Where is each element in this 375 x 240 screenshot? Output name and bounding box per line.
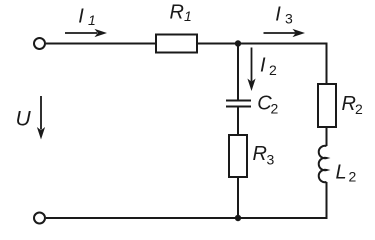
resistor R2	[318, 84, 336, 127]
resistor R3	[229, 135, 247, 177]
bottom wire	[46, 217, 328, 219]
wire L2 to bottom-right corner	[326, 182, 328, 219]
wire R3 to node B	[237, 177, 239, 218]
terminal bottom-left	[34, 213, 45, 224]
node B junction dot	[235, 215, 241, 221]
label R3	[253, 143, 275, 168]
svg-text:2: 2	[269, 62, 277, 78]
svg-text:R: R	[253, 143, 267, 165]
wire top-left to R1	[46, 43, 156, 45]
current arrow I1	[65, 29, 107, 37]
label U	[16, 108, 32, 131]
resistor R1	[156, 35, 197, 53]
label I2	[260, 55, 277, 79]
svg-text:I: I	[78, 6, 84, 28]
label R1	[170, 2, 192, 25]
inductor L2	[319, 146, 327, 182]
wire node A to top-right corner	[238, 43, 328, 45]
svg-text:2: 2	[355, 101, 363, 117]
svg-text:U: U	[16, 108, 32, 131]
label C2	[257, 93, 278, 117]
svg-text:1: 1	[184, 8, 192, 24]
svg-text:2: 2	[271, 101, 279, 117]
label I1	[78, 6, 95, 29]
svg-text:1: 1	[88, 12, 96, 28]
label L2	[336, 162, 357, 185]
svg-text:R: R	[170, 2, 184, 24]
svg-text:I: I	[275, 4, 281, 26]
svg-text:I: I	[260, 55, 266, 77]
current arrow I3	[264, 29, 306, 37]
capacitor C2	[226, 101, 251, 107]
svg-text:2: 2	[349, 169, 357, 185]
wire R2 to L2	[326, 127, 328, 146]
label I3	[275, 4, 293, 27]
current arrow I2	[247, 48, 255, 92]
voltage arrow U	[37, 96, 45, 140]
svg-text:L: L	[336, 162, 347, 184]
svg-text:3: 3	[285, 11, 293, 27]
wire top-right corner down to R2	[326, 43, 328, 85]
label R2	[342, 93, 364, 117]
svg-text:3: 3	[267, 152, 275, 168]
svg-text:R: R	[342, 93, 356, 115]
wire C2 to R3	[237, 107, 239, 135]
wire R1 to node A	[197, 43, 238, 45]
terminal top-left	[34, 38, 45, 49]
node A junction dot	[235, 40, 241, 46]
wire node A down to C2	[237, 44, 239, 101]
